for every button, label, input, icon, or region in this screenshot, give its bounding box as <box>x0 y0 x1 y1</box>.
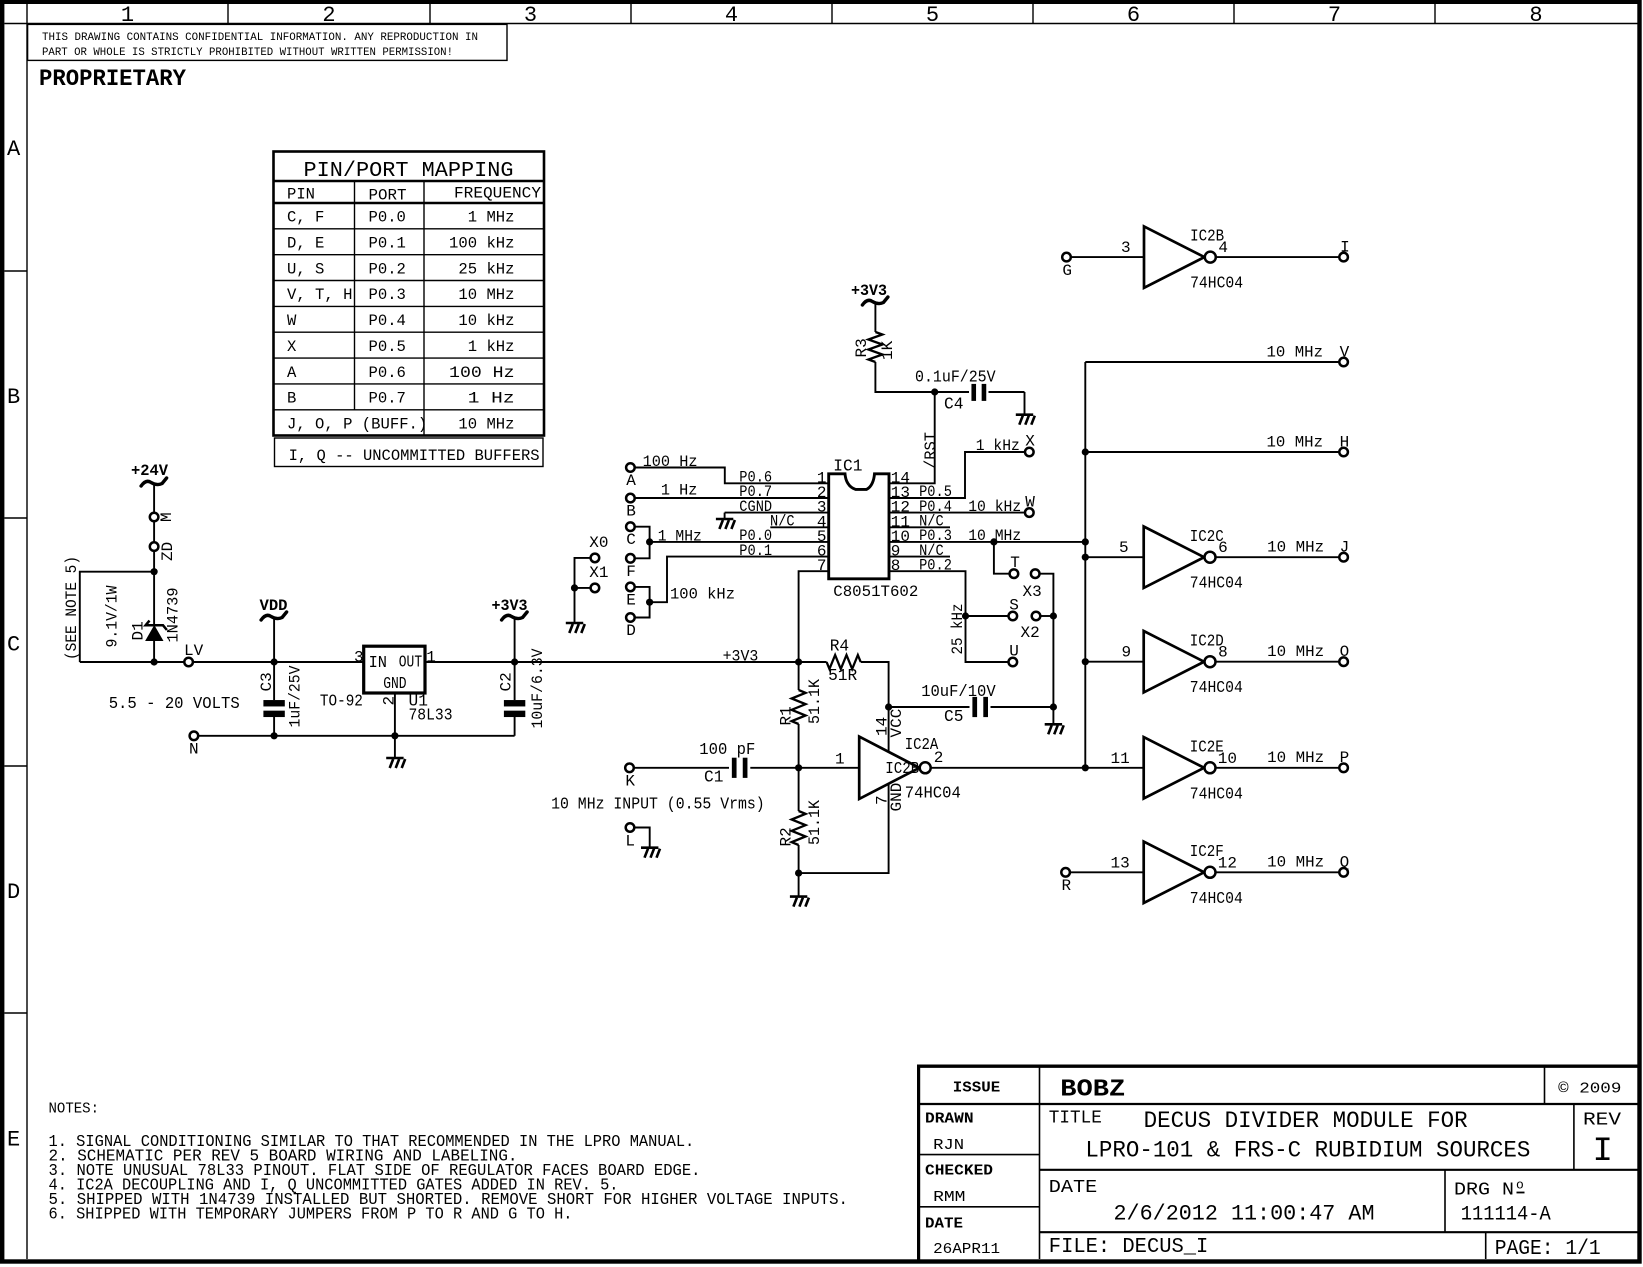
svg-text:C: C <box>626 531 636 549</box>
svg-text:X0: X0 <box>589 534 608 552</box>
wire U1 GND lead <box>394 693 396 736</box>
svg-text:C8051T602: C8051T602 <box>833 583 918 601</box>
svg-text:7: 7 <box>1328 3 1341 28</box>
svg-text:OUT: OUT <box>399 654 423 672</box>
wire S branch <box>966 615 1009 617</box>
node bus/H <box>1082 448 1089 455</box>
node gnd junction <box>795 870 802 877</box>
connector N <box>190 732 199 741</box>
wire pin8 down to U (25 kHz) <box>889 571 1009 662</box>
svg-text:PORT: PORT <box>369 187 407 205</box>
svg-text:10 kHz: 10 kHz <box>458 312 514 330</box>
ground below R2 <box>790 897 809 907</box>
svg-text:74HC04: 74HC04 <box>1190 890 1243 908</box>
ruler tick x=1435 <box>1434 4 1436 24</box>
ruler tick x=430 <box>429 4 431 24</box>
wire gnd stem <box>798 873 800 896</box>
ruler tick x=1234 <box>1233 4 1235 24</box>
svg-text:CHECKED: CHECKED <box>925 1163 993 1180</box>
svg-text:B: B <box>287 390 296 408</box>
wire shorting loop (see note 5) <box>80 572 154 662</box>
wire E/D to pin6 (100 kHz) <box>635 587 650 618</box>
svg-text:D1: D1 <box>130 621 148 640</box>
connector I <box>1339 253 1348 262</box>
svg-text:V, T, H: V, T, H <box>287 286 352 304</box>
capacitor C1 100 pF <box>634 741 799 787</box>
svg-text:(SEE NOTE 5): (SEE NOTE 5) <box>63 556 81 660</box>
svg-text:I: I <box>1593 1133 1613 1171</box>
svg-text:+3V3: +3V3 <box>851 282 887 300</box>
svg-text:74HC04: 74HC04 <box>1190 575 1243 593</box>
svg-text:7: 7 <box>817 557 827 575</box>
connector D <box>626 613 635 622</box>
svg-text:IC2F: IC2F <box>1190 843 1224 861</box>
svg-text:+24V: +24V <box>131 462 169 480</box>
svg-text:IC2B: IC2B <box>885 760 919 778</box>
svg-text:ZD: ZD <box>159 542 177 561</box>
node bus/IC2A-out <box>1082 764 1089 771</box>
wire IC2B output <box>1216 256 1339 258</box>
connector P <box>1339 764 1348 773</box>
node VDD junction <box>271 658 278 665</box>
svg-text:K: K <box>625 772 635 790</box>
svg-text:8: 8 <box>1529 3 1542 28</box>
node U1 gnd junction <box>391 732 398 739</box>
connector LV <box>184 658 193 667</box>
svg-text:1 kHz: 1 kHz <box>468 338 515 356</box>
wire X0/X1 to ground <box>575 558 591 588</box>
node rail-D1 junction <box>151 658 158 665</box>
connector A <box>626 463 635 472</box>
svg-text:10 kHz: 10 kHz <box>968 498 1021 516</box>
svg-text:R3: R3 <box>853 338 871 357</box>
svg-text:3: 3 <box>524 3 537 28</box>
wire C5 to ground <box>1052 707 1054 723</box>
svg-text:GND: GND <box>888 783 906 812</box>
svg-text:W: W <box>1025 493 1035 511</box>
svg-text:74HC04: 74HC04 <box>1190 785 1243 803</box>
connector V <box>1339 358 1348 367</box>
node 10MHz/T junction <box>990 538 997 545</box>
svg-text:X: X <box>1025 433 1035 451</box>
svg-text:G: G <box>1062 262 1072 280</box>
svg-text:U, S: U, S <box>287 260 324 278</box>
svg-text:O: O <box>1340 643 1350 661</box>
wire IC2C output (10 MHz J) <box>1216 556 1340 558</box>
wire IC2F output (10 MHz Q) <box>1216 871 1340 873</box>
capacitor C5 10uF/10V <box>889 683 1054 726</box>
svg-text:1 kHz: 1 kHz <box>976 437 1020 455</box>
connector X2 <box>1032 612 1041 621</box>
ground CGND <box>716 519 735 529</box>
svg-text:10 MHz INPUT (0.55 Vrms): 10 MHz INPUT (0.55 Vrms) <box>551 796 765 814</box>
svg-text:26APR11: 26APR11 <box>933 1241 1000 1258</box>
svg-text:51.1K: 51.1K <box>806 679 824 724</box>
node C3 bottom junction <box>271 732 278 739</box>
svg-text:B: B <box>626 503 636 521</box>
svg-text:Q: Q <box>1340 854 1350 872</box>
IC1 C8051T602 <box>739 458 952 601</box>
svg-text:IC2C: IC2C <box>1190 528 1224 546</box>
row letters <box>7 137 21 1153</box>
svg-text:I, Q -- UNCOMMITTED BUFFERS: I, Q -- UNCOMMITTED BUFFERS <box>289 447 540 465</box>
svg-text:1N4739: 1N4739 <box>165 588 183 643</box>
notes <box>49 1102 848 1224</box>
svg-text:D, E: D, E <box>287 235 324 253</box>
svg-text:PART OR WHOLE IS STRICTLY PROH: PART OR WHOLE IS STRICTLY PROHIBITED WIT… <box>42 47 453 59</box>
wire U1 gnd stem <box>394 736 396 757</box>
node S junction <box>962 612 969 619</box>
inverter IC2A 74HC04 <box>835 736 961 803</box>
svg-text:100 pF: 100 pF <box>699 741 755 759</box>
PIN/PORT MAPPING table <box>274 152 545 467</box>
svg-text:R4: R4 <box>830 638 849 656</box>
svg-text:C3: C3 <box>258 672 276 691</box>
wire main input rail <box>80 661 364 663</box>
node bus/IC2C <box>1082 554 1089 561</box>
svg-text:P: P <box>1340 749 1350 767</box>
svg-text:6. SHIPPED WITH TEMPORARY JUMP: 6. SHIPPED WITH TEMPORARY JUMPERS FROM P… <box>49 1206 573 1224</box>
wire pin7 to 3V3 rail <box>799 571 829 662</box>
svg-text:BOBZ: BOBZ <box>1060 1077 1125 1104</box>
wire C4 to ground <box>1024 392 1026 414</box>
wire IC2D output (10 MHz O) <box>1216 661 1340 663</box>
inverter IC2E 74HC04 <box>1111 737 1243 803</box>
inverter IC2C 74HC04 <box>1119 527 1243 593</box>
svg-text:A: A <box>287 364 297 382</box>
node E/D junction <box>646 599 653 606</box>
wire bus to V output <box>1085 361 1339 363</box>
svg-text:100 kHz: 100 kHz <box>449 235 514 253</box>
svg-text:/RST: /RST <box>922 432 940 469</box>
svg-text:DATE: DATE <box>1049 1178 1098 1198</box>
svg-text:NOTES:: NOTES: <box>49 1102 100 1118</box>
connector R <box>1061 868 1070 877</box>
wire R to IC2F <box>1070 871 1144 873</box>
svg-text:5: 5 <box>926 3 939 28</box>
svg-text:111114-A: 111114-A <box>1461 1204 1551 1227</box>
svg-text:6: 6 <box>1127 3 1140 28</box>
svg-text:10 MHz: 10 MHz <box>1267 643 1324 661</box>
svg-text:RJN: RJN <box>933 1137 964 1154</box>
svg-text:IC2D: IC2D <box>1190 632 1224 650</box>
svg-text:51R: 51R <box>828 667 857 685</box>
wire G to IC2B <box>1071 256 1144 258</box>
wire 10MHz bus vertical <box>1084 362 1086 768</box>
svg-text:2/6/2012 11:00:47 AM: 2/6/2012 11:00:47 AM <box>1114 1202 1375 1227</box>
resistor R4 51R <box>827 638 861 686</box>
svg-text:P0.0: P0.0 <box>369 209 406 227</box>
svg-text:M: M <box>158 512 176 522</box>
svg-text:D: D <box>626 622 636 640</box>
svg-text:X3: X3 <box>1023 583 1042 601</box>
svg-text:9.1V/1W: 9.1V/1W <box>104 585 122 647</box>
svg-text:P0.5: P0.5 <box>369 338 406 356</box>
svg-text:N: N <box>189 740 199 758</box>
connector Q <box>1339 868 1348 877</box>
svg-text:P0.2: P0.2 <box>369 260 406 278</box>
connector G <box>1062 253 1071 262</box>
node X0/X1 junction <box>571 584 578 591</box>
svg-text:FREQUENCY: FREQUENCY <box>454 185 541 203</box>
capacitor C2 10uF/6.3V <box>498 648 548 736</box>
svg-text:3: 3 <box>1121 239 1131 257</box>
ruler tick x=228 <box>227 4 229 24</box>
node C/F junction <box>646 538 653 545</box>
connector E <box>626 583 635 592</box>
svg-text:1 Hz: 1 Hz <box>661 482 698 500</box>
wire down to T <box>994 542 1010 574</box>
svg-text:10 MHz: 10 MHz <box>1267 343 1324 361</box>
svg-text:P0.3: P0.3 <box>369 286 406 304</box>
svg-text:F: F <box>626 563 636 581</box>
ground below X1 <box>566 623 585 633</box>
connector H <box>1339 448 1348 457</box>
svg-text:5: 5 <box>1119 539 1129 557</box>
svg-text:o: o <box>1516 1178 1524 1193</box>
svg-text:13: 13 <box>1111 854 1130 872</box>
wire IC2A input <box>799 767 860 769</box>
left ruler line <box>26 4 28 1260</box>
node /RST junction <box>931 388 938 395</box>
node X2 junction <box>1050 612 1057 619</box>
resistor R1 51.1K <box>778 662 824 726</box>
svg-text:E: E <box>626 591 636 609</box>
svg-text:5.5 - 20 VOLTS: 5.5 - 20 VOLTS <box>109 695 240 713</box>
svg-text:X2: X2 <box>1021 624 1040 642</box>
svg-text:T: T <box>1010 554 1020 572</box>
ground below C5 <box>1045 724 1064 734</box>
node bus/pin10 <box>1082 538 1089 545</box>
svg-text:74HC04: 74HC04 <box>905 785 961 803</box>
inverter IC2D 74HC04 <box>1122 631 1243 697</box>
ruler tick y=271 <box>4 270 27 272</box>
wire pin4 N/C stub <box>770 526 828 528</box>
svg-text:B: B <box>7 385 20 410</box>
svg-text:R1: R1 <box>778 706 796 725</box>
svg-text:IN: IN <box>369 654 387 672</box>
wire X2 to vertical <box>1040 615 1053 617</box>
wire bottom return rail <box>198 735 515 737</box>
wire VCC into IC2A <box>888 707 890 753</box>
capacitor C3 1uF/25V <box>258 662 305 736</box>
svg-text:U: U <box>1009 643 1019 661</box>
svg-text:X: X <box>287 338 297 356</box>
connector ZD <box>150 542 159 551</box>
ground below U1 <box>386 758 405 768</box>
svg-text:S: S <box>1009 597 1019 615</box>
svg-text:L: L <box>625 833 635 851</box>
svg-text:I: I <box>1340 239 1350 257</box>
connector X0 <box>591 554 600 563</box>
svg-text:LPRO-101 & FRS-C RUBIDIUM SOUR: LPRO-101 & FRS-C RUBIDIUM SOURCES <box>1085 1137 1530 1163</box>
svg-text:10 MHz: 10 MHz <box>458 286 514 304</box>
svg-text:10 MHz: 10 MHz <box>1267 433 1324 451</box>
ruler tick x=631 <box>630 4 632 24</box>
wire D1 bottom lead <box>153 640 155 662</box>
svg-text:1: 1 <box>835 751 845 769</box>
svg-text:+3V3: +3V3 <box>492 597 528 615</box>
inverter IC2F 74HC04 <box>1111 842 1243 908</box>
svg-text:51.1K: 51.1K <box>806 800 824 845</box>
wire pin11 N/C stub <box>889 526 950 528</box>
node 3V3 junction <box>511 658 518 665</box>
svg-text:+3V3: +3V3 <box>723 648 759 666</box>
svg-text:VDD: VDD <box>260 597 288 615</box>
connector K <box>625 764 634 773</box>
svg-text:DRAWN: DRAWN <box>925 1111 974 1128</box>
svg-text:25 kHz: 25 kHz <box>458 260 514 278</box>
wire M to ZD <box>153 521 155 542</box>
ruler tick x=832 <box>831 4 833 24</box>
svg-text:9: 9 <box>1122 644 1132 662</box>
wire bus to IC2D <box>1085 661 1143 663</box>
wire 3V3 rail <box>425 661 827 663</box>
svg-text:P0.7: P0.7 <box>369 390 406 408</box>
svg-text:DRG N: DRG N <box>1454 1181 1514 1201</box>
svg-text:1uF/25V: 1uF/25V <box>287 665 305 727</box>
svg-text:10 MHz: 10 MHz <box>1267 749 1324 767</box>
inverter IC2B 74HC04 <box>1121 226 1243 292</box>
svg-text:P0.6: P0.6 <box>369 364 406 382</box>
connector M <box>150 513 159 522</box>
svg-text:E: E <box>7 1128 20 1153</box>
node input bias junction <box>795 764 802 771</box>
node D1 top junction <box>151 568 158 575</box>
svg-text:ISSUE: ISSUE <box>953 1080 1000 1097</box>
wire pin12 to W (10 kHz) <box>889 512 1025 514</box>
connector C <box>626 522 635 531</box>
ruler tick y=518 <box>4 517 27 519</box>
svg-text:V: V <box>1340 343 1350 361</box>
wire pin13 to X (1 kHz) <box>889 452 1025 498</box>
title block <box>917 1065 1639 1262</box>
svg-text:PROPRIETARY: PROPRIETARY <box>39 66 186 92</box>
svg-text:100 Hz: 100 Hz <box>449 364 514 382</box>
connector B <box>626 494 635 503</box>
wire bus to IC2E <box>1085 767 1143 769</box>
confidential notice box <box>28 24 507 60</box>
svg-text:R2: R2 <box>778 827 796 846</box>
svg-text:W: W <box>287 312 297 330</box>
svg-text:1 MHz: 1 MHz <box>658 528 702 546</box>
svg-text:X1: X1 <box>589 564 608 582</box>
wire R3 to C4 row <box>875 362 934 392</box>
svg-text:10uF/6.3V: 10uF/6.3V <box>529 648 547 728</box>
svg-text:PIN/PORT MAPPING: PIN/PORT MAPPING <box>304 160 514 183</box>
svg-text:© 2009: © 2009 <box>1558 1081 1621 1098</box>
svg-text:TO-92: TO-92 <box>320 693 363 711</box>
svg-text:P0.1: P0.1 <box>369 235 406 253</box>
svg-text:10 MHz: 10 MHz <box>1267 539 1324 557</box>
svg-text:C, F: C, F <box>287 209 324 227</box>
svg-text:THIS DRAWING CONTAINS CONFIDEN: THIS DRAWING CONTAINS CONFIDENTIAL INFOR… <box>42 32 478 44</box>
wire /RST down to pin14 <box>889 392 935 483</box>
wire D1 top lead <box>153 572 155 626</box>
svg-text:1: 1 <box>426 649 436 667</box>
wire bus to IC2C <box>1085 556 1143 558</box>
svg-text:VCC: VCC <box>888 709 906 738</box>
svg-text:C1: C1 <box>704 769 723 787</box>
wire X3 to X2 chain <box>1039 574 1053 707</box>
svg-text:1K: 1K <box>879 340 897 360</box>
svg-text:PIN: PIN <box>287 186 315 204</box>
svg-text:11: 11 <box>1111 750 1130 768</box>
svg-text:1 Hz: 1 Hz <box>468 390 515 408</box>
wire IC2E output (10 MHz P) <box>1216 767 1340 769</box>
connector J <box>1339 553 1348 562</box>
svg-text:FILE: DECUS_I: FILE: DECUS_I <box>1049 1236 1209 1259</box>
regulator U1 78L33 <box>320 646 453 724</box>
svg-text:REV: REV <box>1583 1111 1621 1131</box>
svg-text:P0.4: P0.4 <box>369 312 406 330</box>
svg-text:78L33: 78L33 <box>409 707 453 725</box>
wire pin9 N/C stub <box>889 556 950 558</box>
connector X1 <box>591 584 600 593</box>
svg-text:J: J <box>1340 539 1350 557</box>
resistor R3 1K <box>853 332 897 362</box>
svg-text:C5: C5 <box>944 708 963 726</box>
svg-text:IC2B: IC2B <box>1190 228 1224 246</box>
svg-text:TITLE: TITLE <box>1049 1108 1102 1128</box>
connector X3 <box>1031 569 1040 578</box>
ruler tick y=766 <box>4 765 27 767</box>
svg-text:10uF/10V: 10uF/10V <box>921 683 996 701</box>
top ruler line <box>4 23 1639 25</box>
svg-text:8: 8 <box>891 557 901 575</box>
svg-text:RMM: RMM <box>933 1189 965 1206</box>
wire B to pin2 (1 Hz) <box>635 497 829 499</box>
svg-text:C2: C2 <box>498 672 516 691</box>
svg-text:DATE: DATE <box>925 1216 963 1233</box>
svg-text:D: D <box>7 880 20 905</box>
svg-text:100 Hz: 100 Hz <box>643 453 698 471</box>
svg-text:0.1uF/25V: 0.1uF/25V <box>915 369 996 387</box>
wire pin10 to bus (10 MHz) <box>889 541 1085 543</box>
wire +24V to M <box>153 485 155 514</box>
svg-text:GND: GND <box>383 675 406 693</box>
svg-text:10 MHz: 10 MHz <box>1267 854 1324 872</box>
wire A to pin1 (100 Hz) <box>635 468 829 484</box>
svg-text:LV: LV <box>184 642 204 660</box>
svg-text:IC2E: IC2E <box>1190 738 1224 756</box>
connector L <box>626 823 635 832</box>
connector O <box>1339 657 1348 666</box>
svg-text:A: A <box>626 472 636 490</box>
diode D1 zener 1N4739 <box>104 585 183 647</box>
connector X <box>1025 448 1034 457</box>
wire L to ground <box>634 828 650 847</box>
ruler tick y=1013 <box>4 1012 27 1014</box>
svg-text:A: A <box>7 137 21 162</box>
svg-text:3: 3 <box>354 649 364 667</box>
svg-text:74HC04: 74HC04 <box>1190 679 1243 697</box>
svg-text:C: C <box>7 633 20 658</box>
wire bus to H output <box>1085 451 1339 453</box>
svg-text:4: 4 <box>725 3 738 28</box>
wire IC2A gnd lead <box>799 784 889 874</box>
wire ZD to node <box>153 551 155 572</box>
capacitor C4 0.1uF/25V <box>915 369 1025 414</box>
resistor R2 51.1K <box>778 768 824 847</box>
connector S <box>1009 612 1018 621</box>
svg-text:J, O, P (BUFF.): J, O, P (BUFF.) <box>287 416 427 434</box>
wire pin3 CGND <box>725 512 829 514</box>
svg-text:PAGE: 1/1: PAGE: 1/1 <box>1495 1238 1601 1261</box>
svg-text:25 kHz: 25 kHz <box>949 604 967 655</box>
svg-text:IC2A: IC2A <box>905 736 939 754</box>
svg-text:10 MHz: 10 MHz <box>458 416 514 434</box>
